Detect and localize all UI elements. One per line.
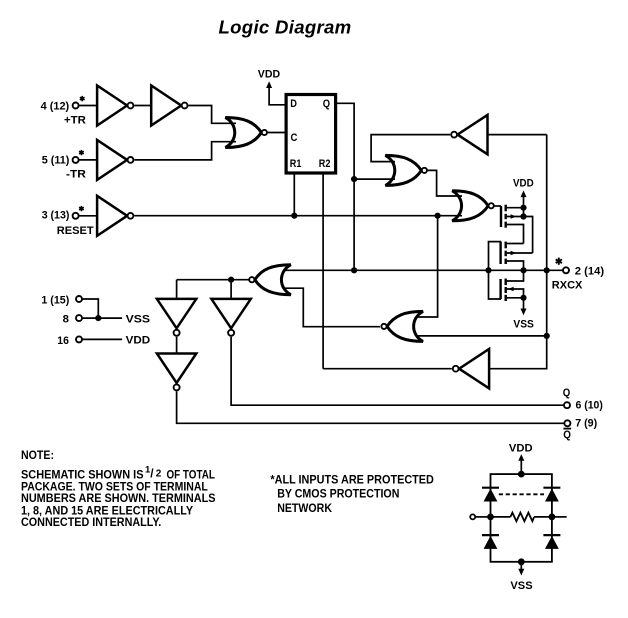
- wire: [524, 217, 533, 254]
- wire: [189, 106, 237, 124]
- svg-text:1 (15): 1 (15): [41, 294, 69, 306]
- wire: [488, 134, 547, 136]
- junction: [544, 267, 550, 273]
- svg-text:5 (11): 5 (11): [42, 155, 70, 167]
- wire R1: [293, 173, 295, 216]
- inverter A5 (feedback top): [451, 115, 487, 154]
- svg-text:VDD: VDD: [513, 178, 534, 190]
- NOR gate G3: [452, 191, 494, 221]
- transistor Q3: [489, 270, 524, 301]
- wire Q-node: [336, 103, 355, 270]
- inverter A7: [157, 354, 196, 391]
- wire: [177, 279, 249, 281]
- svg-text:4 (12): 4 (12): [41, 100, 70, 112]
- junction: [487, 514, 494, 521]
- wire: [82, 317, 122, 319]
- wire: [268, 132, 287, 134]
- power VDD (transistor stack): [513, 178, 534, 217]
- junction: [518, 471, 525, 478]
- svg-text:2: 2: [156, 469, 162, 480]
- protection network frame: [491, 474, 552, 562]
- transistor Q1: [501, 205, 524, 244]
- wire: [546, 270, 548, 336]
- svg-text:7 (9): 7 (9): [575, 418, 597, 430]
- wire: [552, 516, 567, 518]
- wire RESET line: [134, 215, 462, 217]
- junction: [351, 176, 357, 182]
- svg-text:3 (13): 3 (13): [42, 210, 70, 222]
- power VDD (protection): [509, 442, 533, 474]
- wire Q-bar out: [177, 391, 565, 423]
- svg-text:VDD: VDD: [509, 442, 533, 454]
- junction: [95, 315, 101, 321]
- resistor R1 (protection): [491, 513, 552, 522]
- wire: [546, 135, 548, 271]
- terminal pin 3 (13) RESET: [42, 206, 94, 237]
- terminal protection input: [470, 514, 475, 519]
- wire dashed: [499, 493, 544, 495]
- svg-text:VSS: VSS: [513, 318, 534, 330]
- svg-text:C: C: [291, 132, 298, 144]
- wire: [354, 178, 395, 180]
- svg-text:6 (10): 6 (10): [576, 400, 604, 412]
- svg-text:RESET: RESET: [57, 225, 94, 237]
- wire Q out: [231, 337, 564, 405]
- svg-text:Q: Q: [563, 429, 571, 441]
- wire: [323, 368, 452, 370]
- junction: [520, 267, 526, 273]
- svg-text:VSS: VSS: [126, 313, 151, 325]
- wire: [176, 280, 178, 299]
- diode D1: [482, 488, 499, 502]
- junction: [351, 267, 357, 273]
- wire: [230, 280, 232, 299]
- terminal pin 6 (10) Q: [563, 387, 603, 412]
- svg-text:Q: Q: [563, 387, 571, 399]
- wire: [82, 299, 98, 318]
- svg-text:CONNECTED INTERNALLY.: CONNECTED INTERNALLY.: [21, 515, 161, 529]
- power VSS (transistor stack): [513, 298, 534, 331]
- svg-text:16: 16: [57, 335, 69, 347]
- inverter A9 (R2 driver): [453, 349, 489, 388]
- wire: [489, 336, 547, 369]
- svg-text:VSS: VSS: [510, 580, 533, 592]
- svg-text:2 (14): 2 (14): [575, 266, 605, 278]
- junction: [520, 213, 526, 219]
- wire: [79, 159, 98, 161]
- diode D3: [482, 535, 499, 549]
- junction: [485, 267, 491, 273]
- svg-text:+TR: +TR: [64, 115, 86, 127]
- note text: [21, 448, 216, 529]
- transistor Q2: [489, 242, 533, 271]
- inverter A3 (-TR): [97, 140, 133, 180]
- NOR gate G5: [381, 311, 423, 341]
- svg-text:BY CMOS PROTECTION: BY CMOS PROTECTION: [277, 487, 399, 501]
- svg-text:VDD: VDD: [258, 69, 280, 81]
- terminal pin 1 (15): [41, 294, 82, 306]
- power VDD (D input): [258, 69, 286, 105]
- wire: [79, 105, 98, 107]
- NOR gate G4: [249, 265, 291, 295]
- note asterisk text: [270, 473, 434, 516]
- wire: [417, 216, 438, 317]
- wire: [285, 288, 381, 327]
- NOR gate G2: [385, 155, 427, 185]
- wire RXCX line: [285, 269, 564, 271]
- NOR gate G1 (trigger combine): [225, 118, 267, 148]
- terminal pin 7 (9) Q-bar: [563, 418, 597, 441]
- terminal pin 8 VSS: [63, 313, 82, 325]
- terminal pin 16 VDD: [57, 335, 82, 347]
- inverter A1 (+TR first): [97, 86, 133, 126]
- wire R2: [322, 173, 324, 369]
- svg-text:NETWORK: NETWORK: [277, 501, 332, 515]
- wire: [371, 135, 450, 162]
- junction: [291, 213, 297, 219]
- junction: [549, 514, 556, 521]
- diode D2: [543, 488, 560, 502]
- junction: [544, 333, 550, 339]
- wire: [428, 170, 462, 196]
- power VDD label: [126, 335, 150, 347]
- svg-text:*ALL INPUTS ARE PROTECTED: *ALL INPUTS ARE PROTECTED: [270, 473, 434, 487]
- svg-text:R2: R2: [319, 158, 331, 170]
- svg-text:R1: R1: [290, 158, 302, 170]
- inverter A8: [211, 299, 250, 336]
- svg-text:NOTE:: NOTE:: [21, 448, 54, 462]
- wire: [79, 215, 98, 217]
- wire: [494, 205, 501, 207]
- svg-text:RXCX: RXCX: [552, 280, 583, 292]
- svg-text:8: 8: [63, 313, 69, 325]
- diode D4: [543, 535, 560, 549]
- svg-text:-TR: -TR: [66, 169, 86, 181]
- power VSS (protection): [510, 562, 533, 592]
- inverter A6: [157, 299, 196, 336]
- junction: [435, 213, 441, 219]
- junction: [518, 558, 525, 565]
- wire: [82, 338, 122, 340]
- svg-text:VDD: VDD: [126, 335, 150, 347]
- terminal pin 4 (12) +TR: [41, 96, 86, 127]
- power VSS label: [126, 313, 151, 325]
- wire: [475, 516, 490, 518]
- wire: [417, 335, 547, 337]
- wire: [134, 105, 151, 107]
- wire: [134, 142, 236, 160]
- inverter A4 (RESET): [97, 196, 133, 236]
- wire: [176, 337, 178, 354]
- svg-text:Logic Diagram: Logic Diagram: [218, 16, 351, 37]
- svg-text:D: D: [290, 98, 297, 110]
- junction: [520, 205, 526, 211]
- junction: [228, 277, 234, 283]
- inverter A2 (+TR second): [151, 86, 187, 126]
- junction: [520, 295, 526, 301]
- terminal pin 5 (11) -TR: [42, 150, 86, 181]
- terminal pin 2 (14) RXCX: [552, 258, 605, 292]
- title Logic Diagram: [218, 16, 351, 37]
- svg-text:Q: Q: [323, 98, 330, 110]
- latch U1 (D flip-flop): [286, 95, 336, 174]
